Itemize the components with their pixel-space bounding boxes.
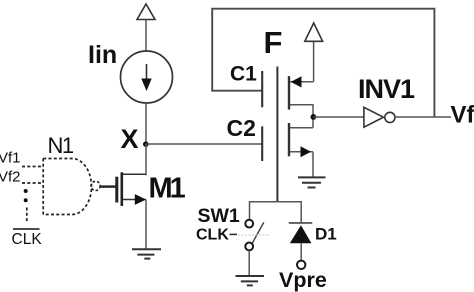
M1 source arrow bbox=[135, 194, 146, 205]
svg-text:Vf2: Vf2 bbox=[0, 169, 21, 186]
switch SW1 top contact bbox=[245, 220, 253, 228]
svg-text:C2: C2 bbox=[227, 115, 256, 141]
floating gate F (long vertical) bbox=[276, 67, 278, 203]
svg-text:Vf1: Vf1 bbox=[0, 150, 21, 167]
svg-text:Vf: Vf bbox=[451, 101, 474, 128]
NMOS source arrow (points right) bbox=[301, 146, 312, 157]
transistor M1 bbox=[123, 174, 147, 199]
N1 output wire to M1 gate bbox=[101, 185, 116, 187]
dashed wire to CLK bbox=[26, 208, 28, 223]
M1 gate bar bbox=[115, 177, 118, 203]
svg-text:Vpre: Vpre bbox=[279, 268, 327, 292]
inverter INV1 triangle bbox=[364, 107, 384, 127]
svg-text:INV1: INV1 bbox=[358, 74, 415, 104]
diode D1 cathode bar bbox=[289, 222, 313, 224]
svg-text:D1: D1 bbox=[315, 225, 337, 244]
current source Iin circle bbox=[121, 51, 173, 103]
switch SW1 bottom contact bbox=[245, 243, 253, 251]
CLK label dash bbox=[230, 233, 238, 235]
node X junction dot bbox=[143, 141, 149, 147]
wire D1 to Vpre terminal bbox=[300, 243, 302, 260]
PMOS source wire bbox=[290, 81, 314, 83]
CLK overline bbox=[13, 228, 40, 230]
feedback wire (top rectangle) bbox=[212, 9, 434, 117]
output node dot bbox=[311, 114, 317, 120]
ground under M1 bbox=[132, 249, 161, 258]
precharge node wire (F to SW1 and D1) bbox=[250, 202, 302, 223]
ellipsis dots (more inputs) bbox=[24, 189, 28, 193]
svg-text:CLK: CLK bbox=[196, 227, 229, 244]
wire switch to ground bbox=[248, 250, 250, 275]
svg-text:CLK: CLK bbox=[12, 231, 43, 248]
input Vf2 dashed wire bbox=[22, 182, 43, 184]
svg-text:SW1: SW1 bbox=[198, 205, 240, 227]
wire NMOS source to ground bbox=[312, 152, 314, 177]
capacitor C2 plate bbox=[261, 126, 263, 161]
NMOS source wire bbox=[290, 151, 313, 153]
input Vf1 dashed wire bbox=[22, 166, 43, 168]
svg-text:N1: N1 bbox=[48, 133, 74, 158]
diode D1 triangle bbox=[290, 225, 312, 243]
svg-text:M1: M1 bbox=[149, 173, 186, 205]
Vpre terminal circle bbox=[297, 261, 305, 269]
output wire to INV1 bbox=[313, 116, 363, 118]
capacitor C1 plate bbox=[261, 71, 263, 107]
M1 channel bar bbox=[121, 172, 124, 206]
INV1 output wire bbox=[395, 116, 451, 118]
wire node X down to M1 drain bbox=[145, 144, 147, 175]
svg-text:F: F bbox=[264, 25, 283, 60]
switch SW1 blade bbox=[252, 222, 263, 243]
ground under NMOS bbox=[298, 177, 326, 187]
NMOS drain wire bbox=[290, 127, 313, 129]
drain bbox=[123, 173, 147, 175]
power supply triangle (right) bbox=[305, 23, 323, 41]
source bbox=[123, 199, 147, 201]
NMOS channel bar bbox=[288, 123, 290, 156]
PMOS source arrow (points left) bbox=[291, 76, 302, 87]
wire PMOS source up to VDD bbox=[313, 42, 315, 82]
wire node X to C2 bbox=[146, 143, 262, 145]
PMOS drain wire bbox=[290, 104, 314, 106]
N1 output bubble bbox=[91, 181, 100, 190]
wire PMOS drain to output node bbox=[312, 105, 314, 128]
power supply triangle (above Iin) bbox=[137, 4, 155, 20]
PMOS channel bar bbox=[288, 76, 290, 110]
ground under SW1 bbox=[236, 276, 265, 285]
NAND gate N1 (dashed) bbox=[43, 159, 91, 215]
wire triangle to current source bbox=[145, 20, 147, 52]
svg-text:Iin: Iin bbox=[88, 41, 117, 69]
current source arrow bbox=[146, 64, 148, 80]
CLK control line bbox=[238, 234, 270, 236]
INV1 output bubble bbox=[385, 112, 395, 122]
svg-text:C1: C1 bbox=[230, 63, 257, 86]
svg-text:X: X bbox=[121, 124, 139, 154]
wire M1 source to ground bbox=[145, 200, 147, 250]
wire current source to node X bbox=[145, 103, 147, 144]
